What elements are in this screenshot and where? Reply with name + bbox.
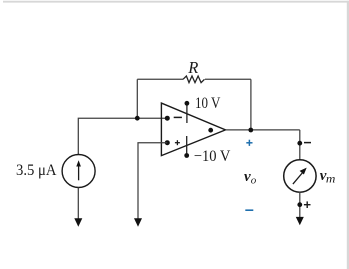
ground arrow under current source — [74, 218, 82, 227]
ground arrow under voltmeter — [296, 217, 304, 225]
figure top border — [3, 1, 349, 3]
wire: down to voltmeter — [299, 130, 301, 160]
wire: feedback loop left vertical — [136, 79, 138, 118]
voltmeter bottom terminal dot — [297, 202, 302, 207]
resistor R zigzag — [183, 76, 205, 83]
current source arrow — [78, 166, 80, 181]
current source circle — [62, 155, 95, 188]
voltmeter VM circle — [284, 160, 316, 192]
voltmeter top minus sign — [304, 142, 311, 144]
op-amp negative supply stub — [186, 136, 188, 156]
figure right border — [347, 1, 349, 269]
wire: voltmeter bottom to ground arrow — [299, 192, 301, 218]
wire: feedback right vertical — [250, 79, 252, 130]
svg-text:10 V: 10 V — [195, 95, 221, 112]
op-amp negative supply dot — [184, 153, 189, 158]
svg-text:m: m — [326, 174, 336, 186]
op-amp minus sign — [174, 116, 182, 118]
voltmeter bottom plus sign — [304, 204, 311, 206]
svg-text:3.5 μA: 3.5 μA — [16, 162, 57, 179]
op-amp positive supply dot — [185, 101, 190, 106]
wire: current source bottom to ground arrow — [77, 188, 79, 220]
voltmeter needle arrow — [293, 172, 304, 185]
op-amp inverting input dot — [165, 116, 170, 121]
wire: non-inverting input to ground — [138, 143, 167, 220]
wire: current source top to inverting input — [78, 118, 167, 155]
junction dot: output/feedback — [248, 128, 253, 133]
wire: feedback top left segment — [137, 78, 183, 80]
blue plus label (vo) — [246, 140, 252, 146]
svg-text:o: o — [251, 174, 257, 186]
op-amp plus sign — [175, 142, 180, 144]
op-amp non-inverting input dot — [165, 140, 170, 145]
blue minus label (vo) — [245, 209, 253, 211]
ground arrow under non-inverting wire — [134, 218, 142, 227]
junction dot: inverting input / feedback — [135, 116, 140, 121]
op-amp U1 triangle — [161, 103, 225, 156]
svg-text:−10 V: −10 V — [194, 148, 231, 165]
wire: feedback top right segment — [205, 78, 251, 80]
svg-text:R: R — [187, 58, 198, 77]
op-amp output terminal dot — [208, 128, 213, 133]
wire: op-amp output to voltmeter branch — [226, 129, 300, 131]
op-amp positive supply stub — [186, 103, 188, 123]
voltmeter top terminal dot — [297, 141, 302, 146]
